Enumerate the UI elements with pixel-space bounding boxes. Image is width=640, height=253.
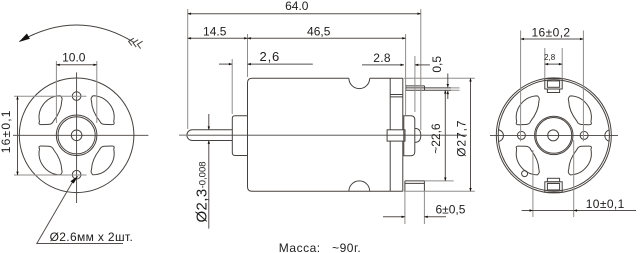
svg-text:0,5: 0,5 bbox=[430, 56, 444, 73]
rear hole left bbox=[517, 131, 525, 139]
extension lines for 10.0 dimension bbox=[56, 61, 96, 123]
dimension line 16±0,2 bbox=[521, 38, 584, 40]
leader line to mounting hole bbox=[37, 179, 123, 244]
mounting bracket tab bbox=[405, 181, 425, 191]
vent slot top-right bbox=[91, 96, 114, 125]
extension line body bottom bbox=[404, 190, 475, 192]
dimension 10±0,1 arrows bbox=[522, 210, 533, 212]
right D-notch bbox=[605, 130, 610, 142]
svg-text:14.5: 14.5 bbox=[203, 25, 227, 39]
extension line boss rear bbox=[414, 56, 416, 112]
extension line through bottom hole bbox=[14, 174, 87, 176]
svg-text:16±0,2: 16±0,2 bbox=[531, 25, 570, 39]
extension lines 16±0,2 through holes bbox=[521, 31, 584, 142]
shaft hole bbox=[71, 130, 82, 141]
rotation direction curved arrow bbox=[20, 25, 135, 43]
rear vent slot bottom-left bbox=[516, 146, 539, 175]
small offset hole bottom-left bbox=[522, 171, 528, 177]
extension lines 10±0,1 bbox=[533, 140, 574, 217]
dimension 0,5 arrows bbox=[447, 74, 449, 88]
svg-text:64.0: 64.0 bbox=[285, 0, 309, 13]
rear center hole bbox=[548, 130, 559, 141]
terminal tab bottom upper rect bbox=[547, 178, 559, 182]
svg-text:6±0,5: 6±0,5 bbox=[436, 203, 466, 217]
terminal tab top lower rect bbox=[547, 89, 559, 93]
mounting hole bottom bbox=[72, 170, 81, 179]
rear boss ring inner bbox=[536, 117, 572, 153]
dimension 2.8 arrows bbox=[362, 64, 404, 66]
svg-text:Ø2.6мм x 2шт.: Ø2.6мм x 2шт. bbox=[50, 230, 134, 244]
extension lines bracket 6±0,5 bbox=[405, 191, 425, 224]
vent slot bottom-left bbox=[39, 146, 62, 175]
rear vent slot top-right bbox=[568, 96, 591, 125]
extension line Ø2,3 on shaft bbox=[179, 134, 188, 136]
extension line body front bbox=[247, 34, 249, 77]
svg-text:~22,6: ~22,6 bbox=[429, 123, 443, 154]
shaft bbox=[187, 130, 232, 141]
rear boss ring outer bbox=[535, 116, 573, 154]
extension line bracket top bbox=[424, 180, 453, 182]
bearing boss ring outer bbox=[56, 115, 97, 156]
svg-text:Масса: ~90г.: Масса: ~90г. bbox=[279, 241, 361, 253]
bottom notch semicircle bbox=[349, 181, 370, 191]
front bearing boss bbox=[232, 116, 247, 156]
terminal tab top outer bbox=[545, 79, 562, 89]
dimension line 6±0,5 bbox=[383, 216, 405, 218]
rear boss bbox=[404, 116, 415, 156]
dimension line 14.5 bbox=[188, 37, 248, 39]
svg-text:46,5: 46,5 bbox=[307, 25, 331, 39]
dimension line 16±0,1 bbox=[17, 96, 19, 175]
motor outer circle (front view) bbox=[19, 78, 134, 193]
dimension line ~22,6 bbox=[444, 90, 446, 181]
dimension line 64.0 bbox=[188, 13, 421, 15]
left D-notch bbox=[498, 130, 503, 142]
dimension line Ø27,7 bbox=[470, 78, 472, 191]
terminal tab bottom inner bbox=[547, 184, 559, 190]
svg-text:2.8: 2.8 bbox=[373, 51, 391, 65]
bearing boss ring inner bbox=[58, 117, 95, 154]
extension line through top hole bbox=[14, 95, 87, 97]
dimension line 46,5 bbox=[248, 37, 406, 39]
horizontal center line bbox=[13, 134, 148, 136]
svg-text:2,8: 2,8 bbox=[544, 53, 556, 62]
motor axis center line bbox=[179, 134, 467, 136]
rear outer circle bbox=[496, 78, 611, 193]
rear inner rim circle bbox=[498, 80, 609, 191]
extension line terminal (0,5) bbox=[451, 88, 460, 90]
body / endcap joint line bbox=[389, 78, 391, 191]
svg-text:10±0,1: 10±0,1 bbox=[586, 197, 625, 211]
extension line endcap rear bbox=[405, 34, 407, 115]
dimension line 2,8 bbox=[545, 63, 562, 65]
svg-text:Ø2,3-0,008: Ø2,3-0,008 bbox=[193, 161, 210, 222]
dimension Ø2,3 arrows on shaft bbox=[208, 114, 210, 130]
svg-text:2,6: 2,6 bbox=[260, 49, 280, 64]
extension line body top bbox=[404, 77, 475, 79]
endcap right edge bbox=[402, 78, 404, 191]
terminal tab bottom outer bbox=[545, 182, 562, 192]
rear bearing bump bbox=[415, 128, 421, 142]
vent slot top-left bbox=[39, 96, 62, 125]
svg-text:16±0,1: 16±0,1 bbox=[0, 109, 13, 153]
endcap crimp top bbox=[390, 95, 403, 97]
terminal tab top inner bbox=[547, 81, 559, 87]
dimension line 10.0 bbox=[56, 64, 96, 66]
extension lines 2,8 tab bbox=[545, 48, 562, 79]
extension line boss front bbox=[231, 59, 233, 114]
rear horizontal center line bbox=[490, 134, 618, 136]
top notch semicircle bbox=[349, 78, 370, 88]
svg-text:10.0: 10.0 bbox=[62, 50, 86, 64]
vent slot bottom-right bbox=[91, 146, 114, 175]
rear vent slot top-left bbox=[516, 96, 539, 125]
mounting hole top bbox=[72, 92, 81, 101]
terminal strip bbox=[406, 85, 451, 90]
motor body outline bbox=[248, 78, 403, 191]
rear hub rectangle bbox=[387, 130, 405, 141]
rear hole right bbox=[580, 131, 588, 139]
extension line shaft tip bbox=[187, 9, 189, 129]
vertical center line bbox=[76, 72, 78, 203]
extension line bump tip bbox=[420, 9, 422, 130]
svg-text:Ø27,7: Ø27,7 bbox=[455, 120, 469, 157]
dimension 2,6 arrows bbox=[219, 63, 232, 65]
rear vent slot bottom-right bbox=[568, 146, 591, 175]
rotation arrow tail chevrons bbox=[129, 38, 143, 48]
